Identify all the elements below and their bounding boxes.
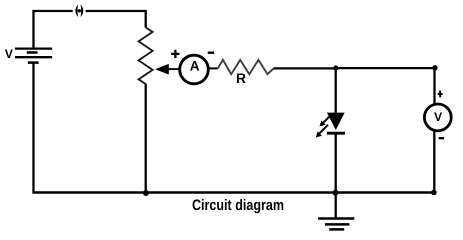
voltmeter U2	[424, 104, 451, 131]
wire top-left horizontal segment	[34, 11, 73, 49]
voltmeter minus label	[439, 137, 445, 139]
voltmeter plus label	[438, 91, 443, 98]
node LED/bottom wire	[333, 190, 339, 196]
plug key K	[75, 4, 83, 17]
node at LED branch (top)	[333, 65, 338, 70]
wire left vertical down from battery	[32, 63, 34, 193]
wire ammeter to resistor	[209, 67, 218, 69]
wire potentiometer to bottom	[145, 84, 147, 193]
svg-text:A: A	[190, 58, 200, 73]
wire voltmeter to bottom	[433, 130, 435, 193]
LED arrow upper	[320, 114, 332, 126]
wire LED node to voltmeter branch	[336, 67, 435, 69]
node voltmeter/bottom wire	[431, 190, 437, 196]
LED D1	[327, 113, 345, 134]
wire LED to bottom	[335, 133, 337, 192]
svg-text:R: R	[236, 71, 246, 86]
resistor R zigzag	[218, 60, 274, 74]
wiper arrow into potentiometer	[155, 64, 180, 75]
battery V (two-cell)	[15, 49, 52, 63]
ammeter plus label	[171, 50, 179, 58]
ammeter minus label	[208, 52, 215, 54]
junction pot/bottom wire	[143, 190, 149, 196]
wire resistor to LED node	[274, 67, 336, 69]
node at voltmeter branch (top)	[432, 65, 437, 70]
potentiometer (rheostat) zigzag	[139, 28, 153, 84]
wire down to LED	[335, 68, 337, 114]
svg-text:Circuit diagram: Circuit diagram	[192, 197, 284, 214]
LED arrow lower	[316, 125, 328, 138]
wire top-right of key to potentiometer	[86, 11, 146, 28]
wire bottom horizontal	[32, 191, 434, 194]
ground	[318, 193, 354, 230]
svg-text:V: V	[5, 47, 14, 61]
svg-text:V: V	[434, 110, 443, 124]
wire down to voltmeter	[433, 68, 435, 105]
ammeter A	[180, 55, 209, 84]
